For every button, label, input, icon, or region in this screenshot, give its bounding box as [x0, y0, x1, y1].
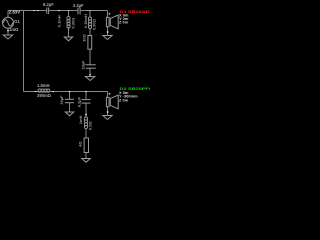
D2 terminal dot: [107, 111, 109, 113]
D1 terminal dot: [107, 31, 109, 33]
capacitor C5 (woofer notch): [82, 100, 91, 104]
wire: [24, 91, 108, 93]
label 10Ω: [82, 33, 87, 41]
svg-text:0.30Ω: 0.30Ω: [71, 17, 76, 29]
speaker D1: [106, 15, 118, 29]
wire endpoint dot: [33, 10, 35, 11]
D2 X: [119, 90, 129, 95]
wire: [85, 153, 87, 159]
polarity +: [109, 93, 111, 95]
ground: [3, 35, 12, 39]
ground: [103, 116, 112, 120]
D1 Y: [119, 16, 129, 21]
inductor L3 (notch): [88, 17, 91, 29]
wire: [107, 11, 109, 18]
wire: [69, 103, 71, 112]
resistor R1 (notch): [88, 36, 92, 50]
wire: [85, 92, 87, 100]
svg-text:33µF: 33µF: [80, 60, 85, 70]
wire: [68, 11, 70, 18]
capacitor C1: [47, 8, 49, 15]
svg-text:G1: G1: [14, 19, 20, 24]
D1 X: [119, 12, 129, 17]
L2 terminal dot: [35, 91, 37, 92]
generator G1: [3, 17, 14, 28]
svg-text:390mΩ: 390mΩ: [37, 93, 52, 98]
L4 terminal dot: [85, 114, 87, 116]
wire: [107, 27, 109, 36]
ground: [85, 77, 94, 81]
wire: [89, 68, 91, 76]
capacitor C2: [78, 8, 80, 15]
label 390mΩ: [37, 93, 52, 98]
label 0.50Ω: [92, 18, 97, 30]
capacitor C4 (shunt): [65, 99, 74, 102]
wire: [107, 107, 109, 116]
D2 Z: [119, 97, 129, 102]
driver D2 label: [120, 87, 169, 92]
D1 Z: [119, 20, 129, 25]
L2 terminal dot: [52, 91, 54, 92]
ground: [82, 159, 90, 163]
G1 terminal dot: [7, 30, 9, 32]
wire: [69, 92, 71, 100]
svg-text:2.83V: 2.83V: [9, 10, 21, 15]
node A (L1 tap): [68, 10, 70, 11]
polarity +: [109, 13, 111, 15]
label 4Ω: [78, 141, 83, 147]
driver D1 label: [120, 10, 155, 15]
svg-text:30µF: 30µF: [59, 95, 64, 105]
label 30µF: [59, 95, 64, 105]
label 33µF: [80, 60, 85, 70]
svg-text:4Ω: 4Ω: [78, 141, 83, 147]
C1 terminal dot: [58, 10, 60, 11]
svg-text:8.2µF: 8.2µF: [43, 2, 54, 7]
inductor L2 (series, woofer): [38, 89, 50, 92]
node D (woofer notch tap): [85, 91, 87, 92]
node C (C4 tap): [69, 91, 71, 92]
wire: [49, 10, 77, 12]
svg-text:0.1mH: 0.1mH: [57, 15, 62, 27]
label 0.5Ω: [88, 121, 93, 130]
label 8.2µF: [43, 2, 54, 7]
wire: [68, 27, 70, 37]
ground: [65, 112, 73, 116]
svg-text:8.2µF: 8.2µF: [77, 96, 82, 107]
svg-text:0.50Ω: 0.50Ω: [92, 18, 97, 30]
wire: [107, 92, 109, 98]
label 0.30Ω: [71, 17, 76, 29]
resistor R2 (woofer notch): [84, 138, 88, 153]
svg-text:1.8mH: 1.8mH: [37, 83, 50, 88]
svg-text:1mΩ: 1mΩ: [9, 27, 19, 32]
inductor L1 (shunt): [67, 17, 70, 29]
wire: [7, 28, 9, 35]
wire: [89, 49, 91, 65]
D2 Y: [119, 94, 138, 99]
label G1: [14, 19, 20, 24]
wire: [85, 103, 87, 117]
svg-text:0.5Ω: 0.5Ω: [88, 121, 93, 130]
node B (notch tap): [89, 10, 91, 11]
inductor L4 (woofer notch): [84, 117, 87, 129]
label 3.3µF: [73, 3, 84, 8]
svg-text:10Ω: 10Ω: [82, 33, 87, 41]
label 1mΩ: [9, 27, 19, 32]
svg-text:1mH: 1mH: [78, 115, 83, 124]
C3 terminal dot: [89, 74, 91, 76]
label 0.1mH: [57, 15, 62, 27]
svg-text:0.15mH: 0.15mH: [83, 14, 88, 28]
label 1mH: [78, 115, 83, 124]
label 0.15mH: [83, 14, 88, 28]
wire: [85, 129, 87, 139]
wire: [8, 10, 46, 12]
wire: [81, 10, 108, 12]
svg-text:Z 0m: Z 0m: [119, 97, 129, 102]
node dots: [7, 10, 108, 115]
C1 terminal dot: [37, 10, 39, 11]
ground: [64, 37, 72, 41]
label 2.83V: [9, 10, 21, 15]
wire: [7, 11, 9, 18]
wire: [23, 11, 25, 92]
ground: [103, 36, 112, 40]
capacitor C3 (notch): [86, 65, 96, 68]
label 8.2µF: [77, 96, 82, 107]
svg-text:Z 0m: Z 0m: [119, 20, 129, 25]
svg-text:3.3µF: 3.3µF: [73, 3, 84, 8]
label 1.8mH: [37, 83, 50, 88]
wire: [89, 11, 91, 18]
wire: [89, 28, 91, 36]
speaker D2: [106, 95, 118, 109]
